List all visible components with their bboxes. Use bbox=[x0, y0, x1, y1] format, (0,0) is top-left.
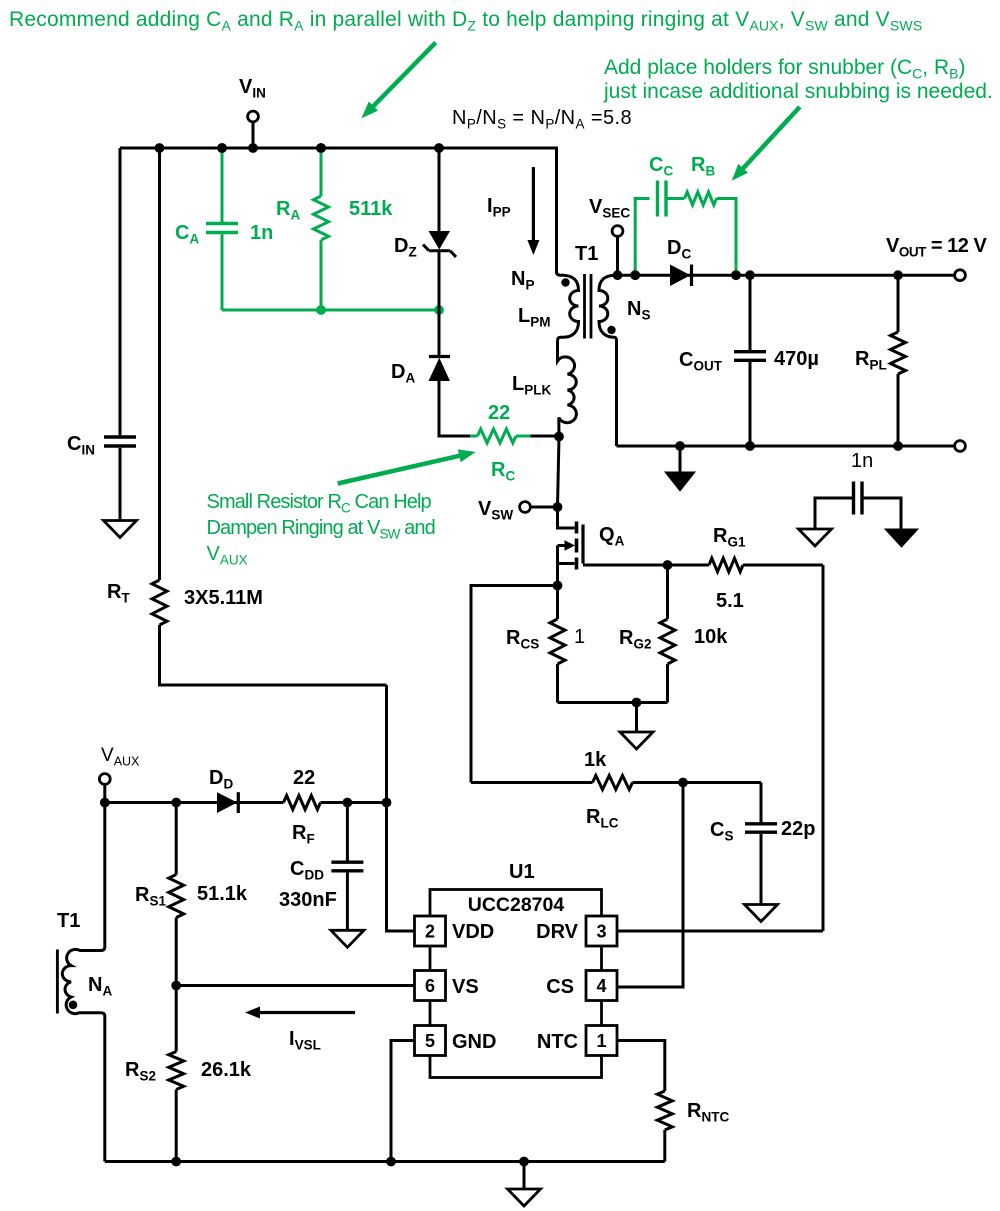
svg-text:RC: RC bbox=[491, 459, 515, 484]
port VOUT+ bbox=[955, 270, 966, 281]
svg-text:RLC: RLC bbox=[586, 806, 619, 831]
svg-text:NA: NA bbox=[88, 974, 112, 999]
port VOUT- bbox=[955, 441, 966, 452]
resistor RF 22 bbox=[284, 796, 321, 810]
ground (secondary side of Y-cap, filled) bbox=[885, 529, 918, 547]
IVSL current arrow bbox=[254, 1011, 355, 1014]
ground (RCS/RG2, open) bbox=[635, 703, 638, 733]
svg-text:RB: RB bbox=[691, 154, 715, 179]
node source junction bbox=[553, 581, 563, 591]
svg-text:1: 1 bbox=[596, 1031, 606, 1051]
wire LPLK bottom to VSW node bbox=[558, 437, 560, 507]
wire secondary top rail bbox=[618, 274, 956, 277]
svg-text:T1: T1 bbox=[57, 910, 80, 932]
svg-text:U1: U1 bbox=[509, 861, 535, 883]
ground (primary side of Y-cap, open) bbox=[799, 529, 832, 546]
svg-text:330nF: 330nF bbox=[279, 889, 337, 911]
svg-text:470µ: 470µ bbox=[774, 348, 819, 370]
svg-text:Recommend adding CA and RA in: Recommend adding CA and RA in parallel w… bbox=[9, 8, 922, 34]
svg-text:NP: NP bbox=[511, 268, 534, 293]
pin 3 DRV bbox=[586, 916, 617, 946]
wire DRV net bbox=[617, 930, 823, 933]
wire bottom rail bbox=[105, 1160, 665, 1163]
svg-text:CA: CA bbox=[175, 222, 199, 247]
resistor RNTC bbox=[657, 1091, 672, 1130]
svg-text:QA: QA bbox=[599, 524, 625, 549]
svg-text:T1: T1 bbox=[575, 243, 598, 265]
svg-text:RG2: RG2 bbox=[619, 627, 651, 652]
wire VDD net bbox=[387, 685, 415, 931]
ground (secondary, filled) bbox=[679, 446, 682, 472]
annotation arrow 3 bbox=[338, 454, 466, 483]
svg-text:CC: CC bbox=[649, 154, 673, 179]
wire VS net bbox=[176, 984, 414, 987]
svg-text:VAUX: VAUX bbox=[207, 543, 248, 568]
svg-text:RNTC: RNTC bbox=[687, 1100, 729, 1125]
svg-text:COUT: COUT bbox=[679, 349, 723, 374]
svg-text:VIN: VIN bbox=[239, 76, 266, 101]
svg-text:CS: CS bbox=[710, 819, 733, 844]
svg-text:2: 2 bbox=[425, 922, 435, 942]
svg-text:CS: CS bbox=[546, 976, 574, 998]
resistor RS1 bbox=[175, 803, 178, 875]
svg-text:1: 1 bbox=[574, 626, 585, 648]
svg-text:IVSL: IVSL bbox=[289, 1028, 321, 1053]
wire top rail bbox=[120, 148, 557, 274]
node VS junction bbox=[171, 981, 181, 991]
op-amp U1 body (UCC28704) bbox=[430, 890, 602, 1078]
svg-text:22: 22 bbox=[488, 402, 510, 424]
svg-text:1n: 1n bbox=[851, 450, 873, 472]
wire output bottom rail bbox=[617, 445, 956, 448]
svg-text:GND: GND bbox=[452, 1031, 496, 1053]
capacitor CDD bbox=[346, 803, 349, 862]
pin 5 GND bbox=[415, 1026, 446, 1056]
ground (CDD, open) bbox=[331, 930, 364, 947]
svg-text:NTC: NTC bbox=[537, 1031, 578, 1053]
winding NP / LPM (primary) bbox=[557, 272, 579, 342]
wire CS net to pin 4 bbox=[617, 783, 683, 988]
svg-text:NS: NS bbox=[627, 298, 650, 323]
ground (CIN) bbox=[104, 521, 137, 538]
svg-text:511k: 511k bbox=[349, 198, 393, 220]
diode DD bbox=[217, 792, 237, 813]
svg-text:NP/NS = NP/NA =5.8: NP/NS = NP/NA =5.8 bbox=[452, 107, 632, 132]
svg-text:51.1k: 51.1k bbox=[197, 883, 248, 905]
ground (bottom rail, open) bbox=[523, 1162, 526, 1190]
svg-text:DRV: DRV bbox=[536, 921, 579, 943]
diode DA bbox=[429, 355, 450, 358]
resistor RG2 bbox=[666, 565, 669, 619]
svg-text:IPP: IPP bbox=[487, 195, 511, 220]
svg-text:10k: 10k bbox=[694, 626, 728, 648]
svg-text:5.1: 5.1 bbox=[716, 590, 744, 612]
resistor RS2 bbox=[175, 986, 178, 1052]
wire DRV riser bbox=[822, 565, 825, 931]
wire VAUX rail bbox=[105, 801, 284, 804]
capacitor CA (green) bbox=[221, 148, 224, 222]
resistor RPL bbox=[897, 275, 900, 332]
capacitor CS bbox=[760, 783, 763, 823]
node (green junctions) bbox=[316, 305, 326, 315]
winding LPLK (leakage) bbox=[558, 341, 577, 437]
svg-text:RF: RF bbox=[292, 822, 315, 847]
node L_PLK / RC junction bbox=[554, 432, 564, 442]
svg-text:DD: DD bbox=[209, 767, 233, 792]
svg-text:26.1k: 26.1k bbox=[201, 1059, 252, 1081]
svg-text:RS2: RS2 bbox=[125, 1059, 156, 1084]
wire gate lead bbox=[583, 564, 709, 567]
svg-text:VSEC: VSEC bbox=[589, 196, 630, 221]
node junctions on top rail bbox=[155, 143, 165, 153]
svg-text:3: 3 bbox=[596, 922, 606, 942]
svg-text:DZ: DZ bbox=[394, 235, 417, 260]
svg-text:Small Resistor RC Can Help: Small Resistor RC Can Help bbox=[207, 491, 432, 516]
svg-text:DA: DA bbox=[391, 361, 415, 386]
svg-text:LPM: LPM bbox=[518, 305, 550, 330]
svg-text:22: 22 bbox=[293, 767, 315, 789]
svg-text:VSW: VSW bbox=[478, 498, 513, 523]
svg-text:CDD: CDD bbox=[290, 858, 324, 883]
capacitor CC (green snubber) bbox=[635, 199, 649, 276]
svg-text:LPLK: LPLK bbox=[512, 373, 551, 398]
svg-text:UCC28704: UCC28704 bbox=[468, 894, 565, 916]
transformer T1 core bbox=[583, 274, 586, 339]
resistor RCS bbox=[556, 586, 559, 620]
resistor RB (green snubber) bbox=[666, 197, 685, 200]
svg-text:RCS: RCS bbox=[506, 627, 539, 652]
svg-text:VOUT = 12 V: VOUT = 12 V bbox=[886, 235, 987, 260]
wire source to RLC bbox=[471, 586, 558, 783]
pin 6 VS bbox=[415, 971, 446, 1001]
resistor RG1 bbox=[709, 558, 743, 572]
svg-text:6: 6 bbox=[425, 976, 435, 996]
svg-text:VAUX: VAUX bbox=[101, 745, 140, 769]
wire RCS/RG2 bottom bbox=[558, 701, 668, 704]
zener diode DZ bbox=[438, 148, 441, 231]
diode DC bbox=[670, 265, 691, 287]
capacitor COUT bbox=[749, 275, 752, 350]
wire NTC net bbox=[617, 1041, 665, 1092]
svg-text:1k: 1k bbox=[584, 749, 607, 771]
svg-text:RPL: RPL bbox=[855, 348, 887, 373]
svg-text:3X5.11M: 3X5.11M bbox=[184, 587, 263, 609]
winding NA (aux) bbox=[62, 803, 105, 1162]
capacitor CIN bbox=[119, 148, 122, 436]
svg-text:RT: RT bbox=[107, 581, 130, 606]
wire GND net pin 5 bbox=[391, 1041, 415, 1162]
svg-text:RA: RA bbox=[276, 198, 300, 223]
pin 4 CS bbox=[586, 971, 617, 1001]
svg-text:RG1: RG1 bbox=[713, 525, 746, 550]
resistor RC (green) bbox=[470, 435, 478, 438]
svg-text:just incase additional snubbin: just incase additional snubbing is neede… bbox=[603, 80, 993, 103]
svg-text:1n: 1n bbox=[250, 222, 273, 244]
transistor QA (MOSFET) bbox=[558, 507, 575, 528]
svg-text:5: 5 bbox=[425, 1031, 435, 1051]
IPP current arrow bbox=[532, 167, 535, 246]
annotation arrow 2 bbox=[739, 107, 800, 173]
resistor RT bbox=[158, 148, 161, 580]
node snubber junctions restamp bbox=[630, 270, 640, 280]
svg-text:RS1: RS1 bbox=[135, 884, 166, 909]
winding NS (secondary) bbox=[599, 275, 618, 446]
svg-text:CIN: CIN bbox=[67, 433, 95, 458]
svg-text:Dampen Ringing at VSW and: Dampen Ringing at VSW and bbox=[207, 517, 435, 542]
svg-text:DC: DC bbox=[667, 237, 691, 262]
svg-text:22p: 22p bbox=[781, 818, 815, 840]
resistor RLC 1k bbox=[471, 781, 593, 784]
svg-text:VS: VS bbox=[452, 976, 479, 998]
wire green clamp bottom rail bbox=[222, 309, 439, 312]
node top rail restamp bbox=[217, 143, 227, 153]
annotation arrow 1 bbox=[369, 43, 436, 111]
svg-text:VDD: VDD bbox=[452, 921, 494, 943]
ground (CS, open) bbox=[745, 905, 778, 922]
pin 2 VDD bbox=[415, 916, 446, 946]
resistor RA (green) bbox=[320, 148, 323, 196]
pin 1 NTC bbox=[586, 1026, 617, 1056]
svg-text:Add place holders for snubber: Add place holders for snubber (CC, RB) bbox=[604, 56, 965, 82]
svg-text:4: 4 bbox=[596, 976, 606, 996]
